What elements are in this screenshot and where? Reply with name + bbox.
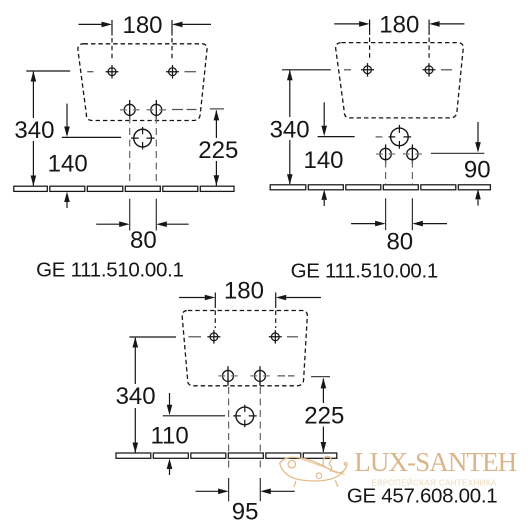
svg-text:90: 90 [464,157,491,184]
tap hole right circle (d1) [151,104,162,115]
floor rail segments (d3) [116,453,337,458]
centerline dash right of right hole (d2) [441,69,452,71]
tick right (d2 180) [428,20,430,36]
tap hole right circle (d3) [255,370,266,381]
svg-text:LUX-SANTEH: LUX-SANTEH [354,447,516,477]
arrow left tip (d1 180 right) [172,22,183,28]
centerline dash left of left hole (d2) [344,69,351,71]
drain hole crosshair (d3) [233,405,257,427]
dim 340 vertical line lower (d3) [134,408,136,453]
fixing hole right crosshair (d2) [423,63,436,77]
extension dashes below ticks (d2) [370,38,430,59]
svg-text:140: 140 [303,147,343,174]
fixing hole left crosshair (d1) [106,65,119,79]
tap hole left circle (d2) [380,148,391,159]
dim 80 right line (d2) [422,223,447,225]
arrow up tip (d2 90) [475,189,481,200]
drain hole crosshair (d1) [131,127,155,149]
tap hole left crosshair vertical (d1) [129,100,131,120]
arrow up tip (d3 110 lower) [167,459,173,470]
tap hole left circle (d3) [223,370,234,381]
dim 95 right line (d3) [270,490,295,492]
dim 225 lower shaft (d1) [215,161,217,186]
tap hole left crosshair (d3) [227,366,229,385]
tick right (d1 180) [171,20,173,36]
arrow down tip (d1 225) [214,175,220,186]
arrow left tip (d2 180) [429,21,440,27]
tap hole left crosshair horizontal (d1) [120,109,140,111]
ceramic outline trapezoid dashed (d2) [336,43,464,118]
tap hole right crosshair (d3) [259,366,261,385]
dim 180 line right (d3) [285,297,321,299]
svg-text:340: 340 [270,117,310,144]
fixing hole right crosshair (d3) [269,330,282,344]
tap hole right circle (d2) [407,148,418,159]
svg-text:110: 110 [150,422,188,449]
arrow down tip (d3 340) [133,443,139,454]
svg-text:80: 80 [130,227,157,254]
arrow left tip (d2 80) [412,221,423,227]
dim 180 line left (d3) [179,297,206,299]
dim 180 line right (d2) [438,23,464,25]
dim 340 vertical line lower (d2) [289,140,291,184]
extension dashes below ticks (d1) [112,38,172,59]
dim 80 right line (d1) [166,223,189,225]
dim 225 lower shaft (d3) [322,427,324,453]
dim 340 vertical line upper (d3) [134,338,136,384]
dim 180 line right (d1) [181,23,211,25]
arrow left tip (d3 180) [276,295,287,301]
dim 180 line left (d1) [79,23,104,25]
fixing hole right circle (d3) [271,333,279,341]
svg-text:95: 95 [232,499,259,526]
tick right (d3 180) [275,293,277,309]
fixing hole right circle (d1) [169,68,177,76]
fixing hole right crosshair (d1) [166,65,179,79]
fixing hole left circle (d3) [210,333,218,341]
arrow right tip (d2 180) [359,21,370,27]
dim 340 vertical line upper (d2) [289,71,291,118]
watermark bathtub logo [280,456,347,486]
extension line 140 (d1) [62,136,121,138]
arrow down tip (d3 110) [167,405,173,416]
mixer hole crosshair (d2) [389,125,412,149]
dim 140 down arrow shaft (d2) [323,102,325,126]
centerline dash right of right hole (d1) [185,71,197,73]
dim 140 up arrow shaft below floor (d2) [323,200,325,206]
dim 95 left line (d3) [196,490,220,492]
arrow up tip (d2 340) [287,70,293,81]
floor rail segments (d2) [270,185,490,190]
dim 110 down arrow shaft (d3) [169,393,171,405]
tick left (d1 180) [111,20,113,36]
dim 140 down arrow shaft (d1) [66,104,68,127]
extension line 225 top (d3) [311,376,330,378]
extension line 225 top (d1) [210,108,224,110]
extension lines 80 dashed (d2) [386,161,413,185]
svg-text:180: 180 [379,11,419,38]
extension line 340 top (d1) [26,70,70,72]
svg-text:180: 180 [224,277,264,304]
dim 80 left line (d1) [96,223,121,225]
centerline dash left of left hole (d1) [87,71,93,73]
tap hole right crosshair horizontal (d1) [147,109,167,111]
arrow right tip (d1 80) [119,221,130,227]
tap hole left crosshair (d2) [385,144,387,163]
tick left (d2 180) [369,20,371,36]
arrow down tip (d3 225) [321,442,327,453]
dim 340 vertical line lower (d1) [32,141,34,186]
dim 80 left line (d2) [351,223,376,225]
centerline dashes right of tap holes (d3) [278,375,295,377]
svg-text:180: 180 [122,12,162,39]
centerline dash left of mixer hole (d2) [376,136,383,138]
tap hole right crosshair (d2) [411,144,413,163]
arrow right tip (d3 180) [205,295,216,301]
fixing hole left crosshair (d3) [207,330,220,344]
arrow up tip (d3 340) [133,337,139,348]
svg-text:80: 80 [386,229,413,256]
arrow down tip (d2 140) [321,126,327,137]
arrow down tip (d2 340) [287,174,293,185]
floor rail segments (d1) [14,186,234,191]
arrow up tip (d1 140 lower) [64,192,70,203]
fixing hole right circle (d2) [425,66,433,74]
fixing hole left circle (d2) [364,66,372,74]
fixing hole left circle (d1) [108,68,116,76]
arrow right tip (d1 180 left) [102,22,113,28]
tick left (d3 180) [214,293,216,309]
arrow up tip (d3 225) [321,378,327,389]
ceramic outline trapezoid dashed (d1) [78,44,207,121]
centerline dash left of left hole (d3) [188,336,201,338]
extension line 140 (d2) [318,136,355,138]
extension lines 80 dashed (d1) [130,117,157,186]
svg-text:GE 111.510.00.1: GE 111.510.00.1 [36,258,183,281]
svg-text:340: 340 [116,383,156,410]
centerline dash right of right hole (d3) [287,336,298,338]
extension line 90 (d2) [431,152,485,154]
mixer hole big circle (d2) [391,128,409,146]
dim 110 up arrow shaft below floor (d3) [169,469,171,475]
dim 225 upper shaft (d1) [215,111,217,139]
dim 180 line left (d2) [334,23,360,25]
arrow down tip (d2 90) [475,142,481,153]
fixing hole left crosshair (d2) [361,63,374,77]
drain hole circle (d3) [236,407,254,425]
extension lines 95 dashed (d3) [229,387,261,453]
arrow left tip (d1 80) [156,221,167,227]
svg-text:GE 111.510.00.1: GE 111.510.00.1 [291,259,438,282]
arrow up tip (d1 225) [214,110,220,121]
extension line 340 top (d3) [129,336,176,338]
arrow up tip (d1 340) [31,71,37,82]
tap hole left circle (d1) [124,104,135,115]
dim 140 up arrow shaft below floor (d1) [66,202,68,208]
ceramic outline trapezoid dashed (d3) [182,311,307,386]
arrow right tip (d3 95) [218,489,229,495]
extension line 340 top (d2) [282,69,331,71]
arrow right tip (d2 80) [375,221,386,227]
drain hole circle (d1) [134,129,152,147]
svg-text:140: 140 [48,151,88,178]
centerline dashes right of tap holes (d1) [172,109,197,111]
tap hole right crosshair vertical (d1) [155,100,157,120]
arrow up tip (d2 140 lower) [321,189,327,200]
arrow left tip (d3 95) [260,489,271,495]
extension line 110 (d3) [163,415,225,417]
dim 340 vertical line upper (d1) [32,72,34,118]
svg-text:225: 225 [198,137,238,164]
svg-text:GE 457.608.00.1: GE 457.608.00.1 [347,484,498,507]
arrow down tip (d1 140) [64,127,70,138]
svg-text:340: 340 [14,117,54,144]
arrow down tip (d1 340) [31,176,37,187]
dim 90 down arrow shaft (d2) [477,122,479,143]
dim 90 up arrow shaft below floor (d2) [477,200,479,206]
dim 225 upper shaft (d3) [322,379,324,404]
extension dashes below ticks (d3) [215,311,275,329]
svg-text:225: 225 [304,403,344,430]
